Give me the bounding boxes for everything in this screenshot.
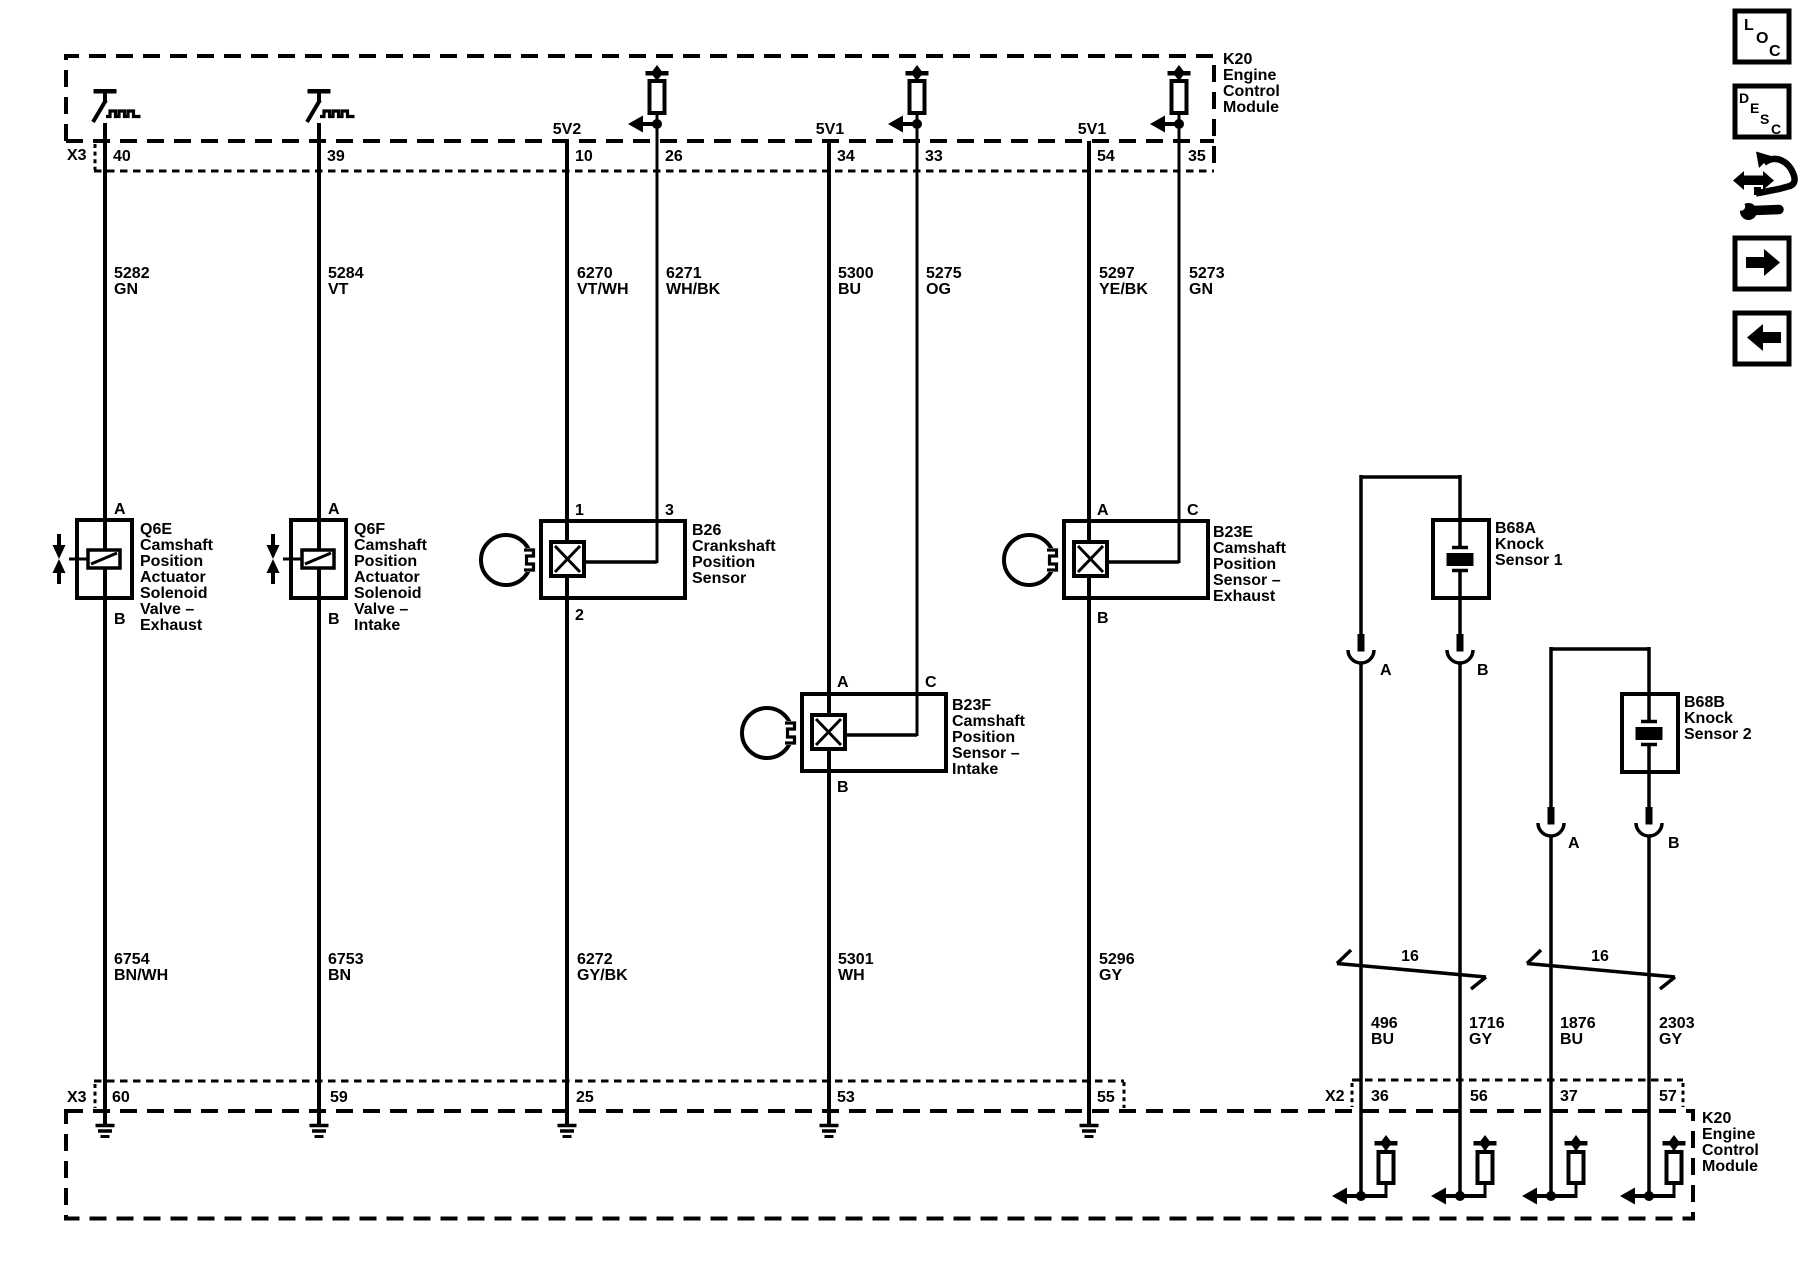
ECM module K20 bottom dashed box — [66, 1111, 1693, 1219]
svg-text:B: B — [328, 611, 340, 628]
svg-text:5301: 5301 — [838, 951, 874, 968]
pin B label (knock 2) — [1668, 835, 1680, 852]
svg-text:A: A — [1097, 502, 1109, 519]
knock sensor B68B — [1622, 694, 1678, 772]
pin 53 of X3 bottom — [837, 1089, 855, 1106]
svg-text:Crankshaft: Crankshaft — [692, 538, 776, 555]
svg-text:E: E — [1750, 100, 1759, 116]
svg-text:Sensor 1: Sensor 1 — [1495, 552, 1563, 569]
svg-text:5282: 5282 — [114, 265, 150, 282]
value label 5273 GN — [1189, 265, 1225, 298]
svg-text:D: D — [1739, 90, 1749, 106]
pin 57 of X2 — [1659, 1088, 1677, 1105]
value label 5284 VT — [328, 265, 364, 298]
svg-text:Sensor –: Sensor – — [1213, 572, 1281, 589]
wire 496 BU — [1359, 663, 1363, 1196]
pin 37 of X2 — [1560, 1088, 1578, 1105]
driver output (ECM internal) for pin 39 — [307, 89, 355, 122]
pin 34 of X3 top — [837, 148, 855, 165]
net 5V1 label (pin 34) — [816, 121, 845, 138]
pin 2 of B26 — [575, 607, 584, 624]
value label 5296 GY — [1099, 951, 1135, 984]
resistor R pull-up pin 33 with signal arrow — [888, 65, 929, 133]
connector designator X2 — [1325, 1088, 1345, 1105]
svg-text:37: 37 — [1560, 1088, 1578, 1105]
icon box back arrow — [1735, 313, 1789, 364]
svg-text:Q6F: Q6F — [354, 521, 385, 538]
svg-text:B: B — [114, 611, 126, 628]
svg-text:5284: 5284 — [328, 265, 364, 282]
svg-text:Sensor 2: Sensor 2 — [1684, 726, 1752, 743]
svg-text:Q6E: Q6E — [140, 521, 172, 538]
svg-text:53: 53 — [837, 1089, 855, 1106]
svg-text:GY/BK: GY/BK — [577, 967, 628, 984]
value label 496 BU — [1371, 1015, 1398, 1048]
svg-text:Position: Position — [1213, 556, 1276, 573]
resistor + input arrow (ECM internal) for pin 37 — [1522, 1135, 1588, 1205]
icon box LOC — [1735, 11, 1789, 62]
label K20 Engine Control Module (bottom) — [1702, 1110, 1759, 1175]
svg-text:GN: GN — [114, 281, 138, 298]
label B68A Knock Sensor 1 — [1495, 520, 1563, 569]
knock sensor B68B circuit top jumper — [1551, 647, 1649, 807]
label Q6F Camshaft Position Actuator Solenoid Valve - Intake — [354, 521, 428, 634]
svg-text:10: 10 — [575, 148, 593, 165]
svg-text:Engine: Engine — [1702, 1126, 1755, 1143]
svg-text:5V1: 5V1 — [816, 121, 845, 138]
svg-text:GY: GY — [1659, 1031, 1682, 1048]
svg-text:Intake: Intake — [952, 761, 998, 778]
svg-text:B68A: B68A — [1495, 520, 1536, 537]
resistor R pull-up pin 35 with signal arrow — [1150, 65, 1191, 133]
net 5V2 label — [553, 121, 582, 138]
inline connector A (knock 1) — [1348, 634, 1374, 663]
icon box forward arrow — [1735, 238, 1789, 289]
ECM module K20 top dashed box — [66, 56, 1214, 171]
value label 6271 WH/BK — [666, 265, 721, 298]
svg-text:WH: WH — [838, 967, 865, 984]
svg-text:Sensor –: Sensor – — [952, 745, 1020, 762]
pin B of B23F — [837, 779, 849, 796]
svg-text:BU: BU — [1560, 1031, 1583, 1048]
label B23F Camshaft Position Sensor - Intake — [952, 697, 1026, 778]
svg-text:Module: Module — [1223, 99, 1279, 116]
value label 6753 BN — [328, 951, 364, 984]
svg-text:3: 3 — [665, 502, 674, 519]
svg-text:BU: BU — [1371, 1031, 1394, 1048]
svg-text:33: 33 — [925, 148, 943, 165]
svg-text:Intake: Intake — [354, 617, 400, 634]
svg-text:6271: 6271 — [666, 265, 702, 282]
svg-text:Sensor: Sensor — [692, 570, 746, 587]
svg-text:2: 2 — [575, 607, 584, 624]
driver output (ECM internal) for pin 40 — [93, 89, 141, 122]
net 5V1 label (pin 54) — [1078, 121, 1107, 138]
svg-text:Valve –: Valve – — [354, 601, 408, 618]
svg-text:C: C — [1187, 502, 1199, 519]
connector designator X3 (bottom) — [67, 1089, 87, 1106]
svg-text:1716: 1716 — [1469, 1015, 1505, 1032]
pin B of Q6F — [328, 611, 340, 628]
svg-text:B23E: B23E — [1213, 524, 1253, 541]
pin A of Q6F — [328, 501, 340, 518]
pin 35 of X3 top — [1188, 148, 1206, 165]
svg-text:25: 25 — [576, 1089, 594, 1106]
wire 5284 VT (Q6F control) — [317, 123, 321, 1124]
svg-text:Position: Position — [140, 553, 203, 570]
pin A label (knock 2) — [1568, 835, 1580, 852]
wire 1876 BU — [1549, 836, 1553, 1196]
pin 1 of B26 — [575, 502, 584, 519]
connector designator X3 (top) — [67, 147, 87, 164]
svg-text:Camshaft: Camshaft — [1213, 540, 1287, 557]
resistor + input arrow (ECM internal) for pin 57 — [1620, 1135, 1686, 1205]
resistor + input arrow (ECM internal) for pin 56 — [1431, 1135, 1497, 1205]
svg-text:5296: 5296 — [1099, 951, 1135, 968]
svg-text:Actuator: Actuator — [140, 569, 206, 586]
inline connector B (knock 1) — [1447, 634, 1473, 663]
svg-text:K20: K20 — [1223, 51, 1252, 68]
svg-text:34: 34 — [837, 148, 855, 165]
svg-text:X3: X3 — [67, 1089, 87, 1106]
svg-text:K20: K20 — [1702, 1110, 1731, 1127]
svg-text:WH/BK: WH/BK — [666, 281, 721, 298]
svg-text:B68B: B68B — [1684, 694, 1725, 711]
ground (ECM internal) at pin wire x=1089 — [1080, 1111, 1099, 1137]
value label 5301 WH — [838, 951, 874, 984]
svg-text:6754: 6754 — [114, 951, 150, 968]
svg-text:X3: X3 — [67, 147, 87, 164]
pin 54 of X3 top — [1097, 148, 1115, 165]
svg-text:Module: Module — [1702, 1158, 1758, 1175]
twisted pair marker 16 (knock 2) — [1527, 950, 1675, 989]
knock sensor B68A — [1433, 520, 1489, 598]
svg-text:56: 56 — [1470, 1088, 1488, 1105]
svg-text:6753: 6753 — [328, 951, 364, 968]
label 16 (knock 2) — [1591, 948, 1609, 965]
label B23E Camshaft Position Sensor - Exhaust — [1213, 524, 1287, 605]
value label 5282 GN — [114, 265, 150, 298]
wire B68A pin B drop — [1458, 598, 1462, 634]
pin A of Q6E — [114, 501, 126, 518]
label 16 (knock 1) — [1401, 948, 1419, 965]
svg-text:5275: 5275 — [926, 265, 962, 282]
wire 1716 GY — [1458, 663, 1462, 1196]
svg-text:5V2: 5V2 — [553, 121, 582, 138]
sensor B23E camshaft position exhaust — [1004, 521, 1208, 598]
svg-text:Valve –: Valve – — [140, 601, 194, 618]
svg-text:5V1: 5V1 — [1078, 121, 1107, 138]
svg-text:GN: GN — [1189, 281, 1213, 298]
pin A label (knock 1) — [1380, 662, 1392, 679]
value label 6272 GY/BK — [577, 951, 628, 984]
svg-text:C: C — [925, 674, 937, 691]
svg-text:Control: Control — [1702, 1142, 1759, 1159]
solenoid valve Q6F (camshaft actuator intake) — [267, 520, 347, 598]
resistor + input arrow (ECM internal) for pin 36 — [1332, 1135, 1398, 1205]
svg-text:1876: 1876 — [1560, 1015, 1596, 1032]
svg-text:A: A — [328, 501, 340, 518]
pin B label (knock 1) — [1477, 662, 1489, 679]
svg-text:Exhaust: Exhaust — [1213, 588, 1276, 605]
wire 5300 BU (CMP intake signal) — [827, 141, 831, 1124]
svg-text:Camshaft: Camshaft — [952, 713, 1026, 730]
pin 36 of X2 — [1371, 1088, 1389, 1105]
svg-text:26: 26 — [665, 148, 683, 165]
svg-text:C: C — [1771, 121, 1781, 137]
knock sensor B68A circuit top jumper — [1361, 475, 1460, 634]
svg-text:BU: BU — [838, 281, 861, 298]
svg-text:496: 496 — [1371, 1015, 1398, 1032]
pin 33 of X3 top — [925, 148, 943, 165]
svg-text:YE/BK: YE/BK — [1099, 281, 1148, 298]
label Q6E Camshaft Position Actuator Solenoid Valve - Exhaust — [140, 521, 214, 634]
pin B of B23E — [1097, 610, 1109, 627]
label B68B Knock Sensor 2 — [1684, 694, 1752, 743]
svg-text:Actuator: Actuator — [354, 569, 420, 586]
svg-text:A: A — [1568, 835, 1580, 852]
svg-text:A: A — [114, 501, 126, 518]
svg-text:59: 59 — [330, 1089, 348, 1106]
ground (ECM internal) at pin wire x=567 — [558, 1111, 577, 1137]
svg-text:B: B — [837, 779, 849, 796]
value label 5275 OG — [926, 265, 962, 298]
svg-text:16: 16 — [1401, 948, 1419, 965]
svg-text:VT: VT — [328, 281, 349, 298]
label B26 Crankshaft Position Sensor — [692, 522, 776, 587]
svg-text:Knock: Knock — [1684, 710, 1733, 727]
svg-text:Solenoid: Solenoid — [140, 585, 208, 602]
value label 1876 BU — [1560, 1015, 1596, 1048]
value label 5300 BU — [838, 265, 874, 298]
value label 5297 YE/BK — [1099, 265, 1148, 298]
pin 3 of B26 — [665, 502, 674, 519]
wire 5297 YE/BK (CMP exhaust signal) — [1087, 141, 1091, 1124]
svg-text:X2: X2 — [1325, 1088, 1345, 1105]
svg-text:B23F: B23F — [952, 697, 991, 714]
svg-text:55: 55 — [1097, 1089, 1115, 1106]
pin 56 of X2 — [1470, 1088, 1488, 1105]
wire 5282 GN (Q6E control) — [103, 123, 107, 1124]
inline connector B (knock 2) — [1636, 807, 1662, 836]
svg-text:2303: 2303 — [1659, 1015, 1695, 1032]
svg-text:A: A — [837, 674, 849, 691]
pin B of Q6E — [114, 611, 126, 628]
svg-text:1: 1 — [575, 502, 584, 519]
ground (ECM internal) at pin wire x=829 — [820, 1111, 839, 1137]
pin 26 of X3 top — [665, 148, 683, 165]
svg-text:BN: BN — [328, 967, 351, 984]
icon box DESC — [1735, 86, 1789, 137]
svg-text:5300: 5300 — [838, 265, 874, 282]
svg-text:36: 36 — [1371, 1088, 1389, 1105]
sensor B26 crankshaft position — [481, 521, 685, 598]
svg-text:35: 35 — [1188, 148, 1206, 165]
svg-text:O: O — [1756, 30, 1768, 47]
ground (ECM internal) at pin wire x=319 — [310, 1111, 329, 1137]
svg-text:A: A — [1380, 662, 1392, 679]
svg-text:Control: Control — [1223, 83, 1280, 100]
pin 25 of X3 bottom — [576, 1089, 594, 1106]
svg-text:S: S — [1760, 111, 1769, 127]
wire 6270 VT/WH (CKP signal) — [565, 141, 569, 1124]
value label 6270 VT/WH — [577, 265, 629, 298]
wire B68B pin B drop — [1647, 772, 1651, 807]
connector X3 (top) dotted strip — [94, 144, 1214, 171]
pin 59 of X3 bottom — [330, 1089, 348, 1106]
wire 5273 GN (5V ref to B23E) — [1178, 128, 1181, 563]
pin A of B23F — [837, 674, 849, 691]
svg-text:5273: 5273 — [1189, 265, 1225, 282]
svg-text:L: L — [1744, 17, 1754, 34]
svg-text:B26: B26 — [692, 522, 721, 539]
svg-text:40: 40 — [113, 148, 131, 165]
value label 6754 BN/WH — [114, 951, 168, 984]
connector X3 (bottom) dotted strip — [94, 1081, 1124, 1108]
svg-text:OG: OG — [926, 281, 951, 298]
svg-text:6270: 6270 — [577, 265, 613, 282]
svg-text:5297: 5297 — [1099, 265, 1135, 282]
svg-text:16: 16 — [1591, 948, 1609, 965]
inline connector A (knock 2) — [1538, 807, 1564, 836]
ground (ECM internal) at pin wire x=105 — [96, 1111, 115, 1137]
svg-text:B: B — [1477, 662, 1489, 679]
svg-text:BN/WH: BN/WH — [114, 967, 168, 984]
resistor R pull-up pin 26 with signal arrow — [628, 65, 669, 133]
svg-text:6272: 6272 — [577, 951, 613, 968]
svg-text:C: C — [1769, 43, 1781, 60]
pin C of B23E — [1187, 502, 1199, 519]
connector X2 dotted strip — [1352, 1080, 1683, 1107]
svg-text:GY: GY — [1469, 1031, 1492, 1048]
svg-text:60: 60 — [112, 1089, 130, 1106]
pin 55 of X3 bottom — [1097, 1089, 1115, 1106]
wire 5275 OG (5V ref to B23F) — [916, 128, 919, 736]
pin 10 of X3 top — [575, 148, 593, 165]
label K20 Engine Control Module (top) — [1223, 51, 1280, 116]
svg-text:Position: Position — [692, 554, 755, 571]
svg-text:57: 57 — [1659, 1088, 1677, 1105]
svg-text:VT/WH: VT/WH — [577, 281, 629, 298]
wire 2303 GY — [1647, 836, 1651, 1196]
svg-text:B: B — [1097, 610, 1109, 627]
pin A of B23E — [1097, 502, 1109, 519]
svg-text:Position: Position — [354, 553, 417, 570]
value label 2303 GY — [1659, 1015, 1695, 1048]
svg-text:Exhaust: Exhaust — [140, 617, 203, 634]
svg-text:Solenoid: Solenoid — [354, 585, 422, 602]
icon replace-part (arrows + wrench) — [1733, 152, 1795, 221]
svg-text:B: B — [1668, 835, 1680, 852]
svg-text:Knock: Knock — [1495, 536, 1544, 553]
svg-text:39: 39 — [327, 148, 345, 165]
pin 39 of X3 top — [327, 148, 345, 165]
pin 40 of X3 top — [113, 148, 131, 165]
svg-text:Position: Position — [952, 729, 1015, 746]
pin 60 of X3 bottom — [112, 1089, 130, 1106]
value label 1716 GY — [1469, 1015, 1505, 1048]
twisted pair marker 16 (knock 1) — [1337, 950, 1486, 989]
solenoid valve Q6E (camshaft actuator exhaust) — [53, 520, 133, 598]
sensor B23F camshaft position intake — [742, 694, 946, 771]
svg-text:Camshaft: Camshaft — [354, 537, 428, 554]
svg-text:Camshaft: Camshaft — [140, 537, 214, 554]
svg-text:Engine: Engine — [1223, 67, 1276, 84]
wire 6271 WH/BK (5V ref to B26) — [656, 128, 659, 563]
svg-text:GY: GY — [1099, 967, 1122, 984]
pin C of B23F — [925, 674, 937, 691]
svg-text:54: 54 — [1097, 148, 1115, 165]
